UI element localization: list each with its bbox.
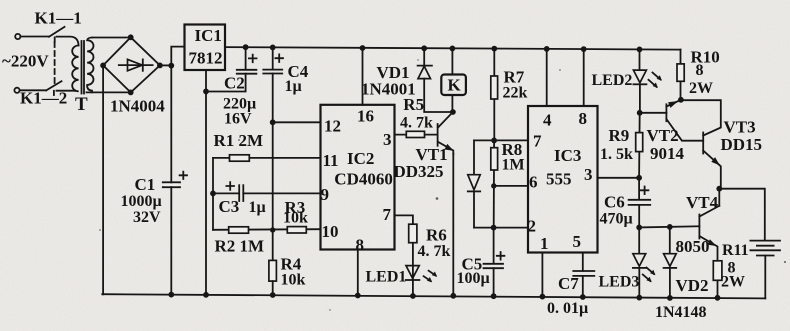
wire bridge+ to node (160, 64, 171, 66)
node IC1 gnd / C2 (203, 89, 209, 95)
node R7/R8/pin7 (491, 138, 497, 144)
svg-text:1000µ: 1000µ (121, 193, 162, 210)
node pin8 on rail (355, 293, 361, 299)
transistor VT2 9014 (665, 104, 667, 121)
LED3 (638, 227, 640, 253)
node pin2 / C5 (491, 225, 497, 231)
svg-text:470µ: 470µ (600, 211, 633, 228)
wire IC2 pin8 lead to ground rail (357, 250, 359, 296)
wire (57, 90, 76, 92)
resistor R7 (493, 49, 495, 141)
ganged switch dashed link (54, 42, 56, 84)
svg-text:10k: 10k (283, 210, 308, 227)
node DC+ (168, 63, 174, 69)
wire to battery (719, 189, 765, 241)
wire IC3 pin1 lead to rail (541, 253, 543, 297)
diode VD1 1N4001 (423, 48, 425, 65)
wire C6 junction to VT4 base (639, 226, 699, 227)
node LED1 on rail (410, 293, 416, 299)
switch K1-2 (46, 81, 61, 90)
svg-text:2W: 2W (721, 274, 745, 291)
svg-text:4. 7k: 4. 7k (418, 243, 451, 260)
capacitor C3 (213, 192, 239, 194)
wire secondary bottom to bridge (87, 91, 131, 93)
wire VT2 base (640, 112, 667, 114)
node bridge left (100, 63, 106, 69)
diode VD2 1N4148 (669, 227, 671, 253)
resistor R1 (230, 155, 250, 161)
node R11 on rail (715, 295, 721, 301)
svg-text:10: 10 (322, 222, 339, 241)
wire C4 / reset column down to R4 (272, 74, 274, 261)
svg-text:6: 6 (529, 173, 538, 192)
svg-text:CD4060: CD4060 (334, 170, 393, 189)
capacitor C7 (582, 253, 584, 271)
svg-text:1µ: 1µ (285, 78, 302, 95)
svg-text:22k: 22k (503, 85, 528, 102)
svg-text:IC1: IC1 (195, 26, 222, 45)
node reset column / pin12 wire (270, 119, 276, 125)
svg-text:VT4: VT4 (686, 193, 719, 212)
svg-text:11: 11 (323, 151, 339, 170)
svg-text:32V: 32V (133, 209, 161, 226)
svg-text:10k: 10k (281, 272, 306, 289)
svg-text:C3: C3 (219, 197, 240, 216)
wire IC2 pin11 / R1 (213, 157, 321, 159)
LED2 arrows (653, 73, 661, 80)
LED2 (639, 49, 641, 70)
node VD2 top (667, 224, 673, 230)
svg-text:1. 5k: 1. 5k (600, 146, 633, 163)
wire AC- column down (102, 65, 104, 294)
svg-text:LED2: LED2 (592, 72, 633, 89)
svg-text:4. 7k: 4. 7k (400, 115, 433, 132)
svg-text:R9: R9 (609, 126, 630, 145)
svg-text:555: 555 (546, 170, 572, 189)
svg-text:16V: 16V (224, 111, 252, 128)
svg-text:9: 9 (321, 185, 330, 204)
VT1 emitter arrow (444, 144, 453, 151)
IC2 CD4060 box (321, 105, 395, 250)
node VD1/K/VT1 collector (450, 109, 456, 115)
node rail / IC3 pin8 (581, 46, 587, 52)
node rail / relay K (450, 46, 456, 52)
wire 555 pin7 (474, 139, 528, 141)
svg-text:1N4001: 1N4001 (361, 80, 416, 99)
wire secondary top to bridge (92, 37, 131, 39)
svg-text:7812: 7812 (189, 49, 223, 68)
node osc/C3 (210, 191, 216, 197)
svg-text:0. 01µ: 0. 01µ (547, 300, 588, 317)
node VT3 emitter / VT4 collector / battery (716, 186, 722, 192)
node gnd on rail (203, 292, 209, 298)
node VT1 emitter on rail (450, 293, 456, 299)
transformer T secondary winding (87, 38, 93, 93)
svg-text:3: 3 (383, 130, 392, 149)
wire DC+ down to C1 (170, 66, 172, 295)
LED3 arrows (647, 268, 655, 275)
svg-text:R6: R6 (426, 226, 447, 245)
node rail / IC3 pin4 (544, 46, 550, 52)
node LED3 on rail (636, 295, 642, 301)
C2 polarity + (249, 55, 257, 63)
resistor R10 (680, 50, 682, 100)
svg-text:7: 7 (533, 132, 542, 151)
C4 polarity + (275, 54, 283, 62)
svg-text:7: 7 (383, 205, 392, 224)
svg-text:R11: R11 (722, 242, 749, 259)
svg-text:VT3: VT3 (724, 118, 756, 137)
node bridge right (157, 63, 163, 69)
wire IC3 pin8 lead (583, 49, 585, 106)
svg-text:C1: C1 (135, 175, 156, 194)
wire 555 pin2 (474, 227, 528, 229)
node rail / LED2 (637, 47, 643, 53)
node R2/R3/R4 (270, 227, 275, 232)
svg-text:VT2: VT2 (647, 126, 679, 145)
transformer T primary winding (72, 45, 78, 91)
svg-text:2: 2 (528, 217, 537, 236)
svg-text:4: 4 (543, 111, 552, 130)
node rail / R7 (491, 46, 497, 52)
svg-text:C7: C7 (558, 274, 579, 293)
wire DC+ up to IC1 input (171, 47, 184, 66)
C3 polarity + (226, 182, 234, 190)
wire (20, 89, 46, 91)
wire +12V top rail (225, 47, 681, 50)
svg-text:LED3: LED3 (599, 274, 640, 291)
svg-text:R2 1M: R2 1M (215, 237, 265, 256)
svg-text:8: 8 (579, 109, 588, 128)
transformer core (81, 41, 83, 94)
resistor R2 (229, 227, 249, 233)
svg-text:8: 8 (696, 62, 704, 79)
svg-text:1N4148: 1N4148 (655, 304, 707, 321)
node rail / IC2 pin16 (360, 45, 366, 51)
node bridge top (128, 34, 134, 40)
bridge rectifier 1N4004 diamond (103, 37, 160, 92)
resistor R4 (269, 260, 277, 281)
switch K1-1 (49, 27, 65, 37)
node VD2 on rail (667, 295, 673, 301)
wire IC2 pin10 / R2 R3 (213, 228, 321, 231)
node C6/LED3 (636, 225, 642, 231)
svg-text:8: 8 (356, 236, 365, 255)
node rail/C4 (270, 45, 276, 51)
VT3 emitter arrow (711, 157, 720, 165)
svg-text:5: 5 (573, 232, 582, 251)
wire oscillator common node vertical (212, 158, 214, 230)
node pin3/R9/C6 (636, 175, 642, 181)
svg-text:K: K (448, 76, 462, 95)
wire (57, 37, 79, 46)
svg-text:16: 16 (357, 107, 374, 126)
diode across R8 (473, 140, 475, 174)
svg-text:3: 3 (584, 165, 593, 184)
wire R4 to rail (272, 281, 274, 295)
svg-text:T: T (75, 94, 88, 115)
node rail/C2 (243, 44, 249, 50)
relay K coil box (451, 48, 453, 74)
node C7 on rail (580, 294, 586, 300)
node R8 / 555 pin6 (491, 183, 496, 188)
wire IC2 pin7 to R6 (395, 215, 413, 296)
node R4 on rail (270, 292, 276, 298)
svg-text:1: 1 (540, 234, 549, 253)
resistor R8 (493, 140, 495, 227)
VT2 emitter arrow (668, 101, 678, 108)
svg-text:K1—1: K1—1 (35, 9, 82, 28)
VT4 emitter arrow (708, 239, 717, 246)
svg-text:1M: 1M (502, 157, 525, 174)
C5 polarity + (497, 252, 505, 260)
svg-text:IC3: IC3 (554, 146, 581, 165)
resistor R6 (409, 224, 417, 243)
terminal L (top input) (15, 34, 20, 39)
wire IC2 pin12 (273, 121, 321, 123)
node LED2/R9/VT2 base (637, 110, 643, 116)
wire ground bottom rail (102, 294, 765, 298)
resistor R11 (713, 261, 722, 281)
svg-text:VD2: VD2 (676, 276, 709, 295)
C1 polarity + (180, 172, 187, 179)
svg-text:1µ: 1µ (249, 199, 266, 216)
svg-text:C2: C2 (224, 74, 245, 93)
capacitor C5 (493, 228, 495, 264)
battery GB (750, 240, 780, 242)
transistor VT4 8050 (718, 189, 720, 206)
wire 555 pin6 (494, 185, 528, 187)
node C5 on rail (491, 293, 497, 299)
LED1 arrows (429, 271, 436, 276)
wire IC3 pin3 (598, 177, 640, 179)
LED1 (406, 266, 419, 279)
node R10/VT2 emitter/VT3 collector (678, 97, 684, 103)
resistor R3 (287, 227, 306, 233)
node C1 on rail (168, 292, 174, 298)
wire IC1 ground lead down (205, 70, 207, 295)
svg-text:DD15: DD15 (721, 135, 763, 154)
capacitor C6 (638, 178, 640, 200)
node pin1 on rail (540, 294, 546, 300)
capacitor C2 (245, 47, 247, 69)
svg-text:8050: 8050 (676, 237, 710, 256)
svg-text:C6: C6 (604, 193, 625, 212)
svg-text:~220V: ~220V (2, 52, 49, 71)
capacitor C1 plates (163, 181, 180, 183)
svg-text:9014: 9014 (650, 144, 685, 163)
C6 polarity + (641, 187, 649, 195)
bridge internal diode (119, 64, 153, 66)
wire IC2 pin16 lead (362, 48, 364, 105)
svg-text:LED1: LED1 (366, 269, 407, 286)
wire (21, 36, 49, 38)
svg-text:IC2: IC2 (347, 149, 374, 168)
wire IC3 pin4 lead (546, 49, 548, 106)
wire IC2 pin3 to R5 (395, 134, 438, 136)
svg-text:12: 12 (324, 117, 341, 136)
capacitor C4 (272, 47, 274, 69)
svg-text:DD325: DD325 (394, 162, 444, 181)
terminal N (bottom input) (14, 88, 19, 93)
regulator IC1 7812 box (185, 25, 226, 71)
wire VT1 emitter down to rail (452, 154, 454, 296)
IC3 555 box (528, 106, 598, 253)
node bridge bottom (128, 90, 134, 96)
resistor R5 (406, 131, 424, 137)
svg-text:2W: 2W (689, 80, 713, 97)
transistor VT1 DD325 (437, 124, 439, 146)
transistor VT3 DD15 (702, 133, 704, 154)
resistor R9 (638, 113, 641, 178)
svg-text:100µ: 100µ (457, 270, 490, 287)
svg-text:1N4004: 1N4004 (110, 97, 165, 116)
node rail / VD1 (421, 45, 427, 51)
